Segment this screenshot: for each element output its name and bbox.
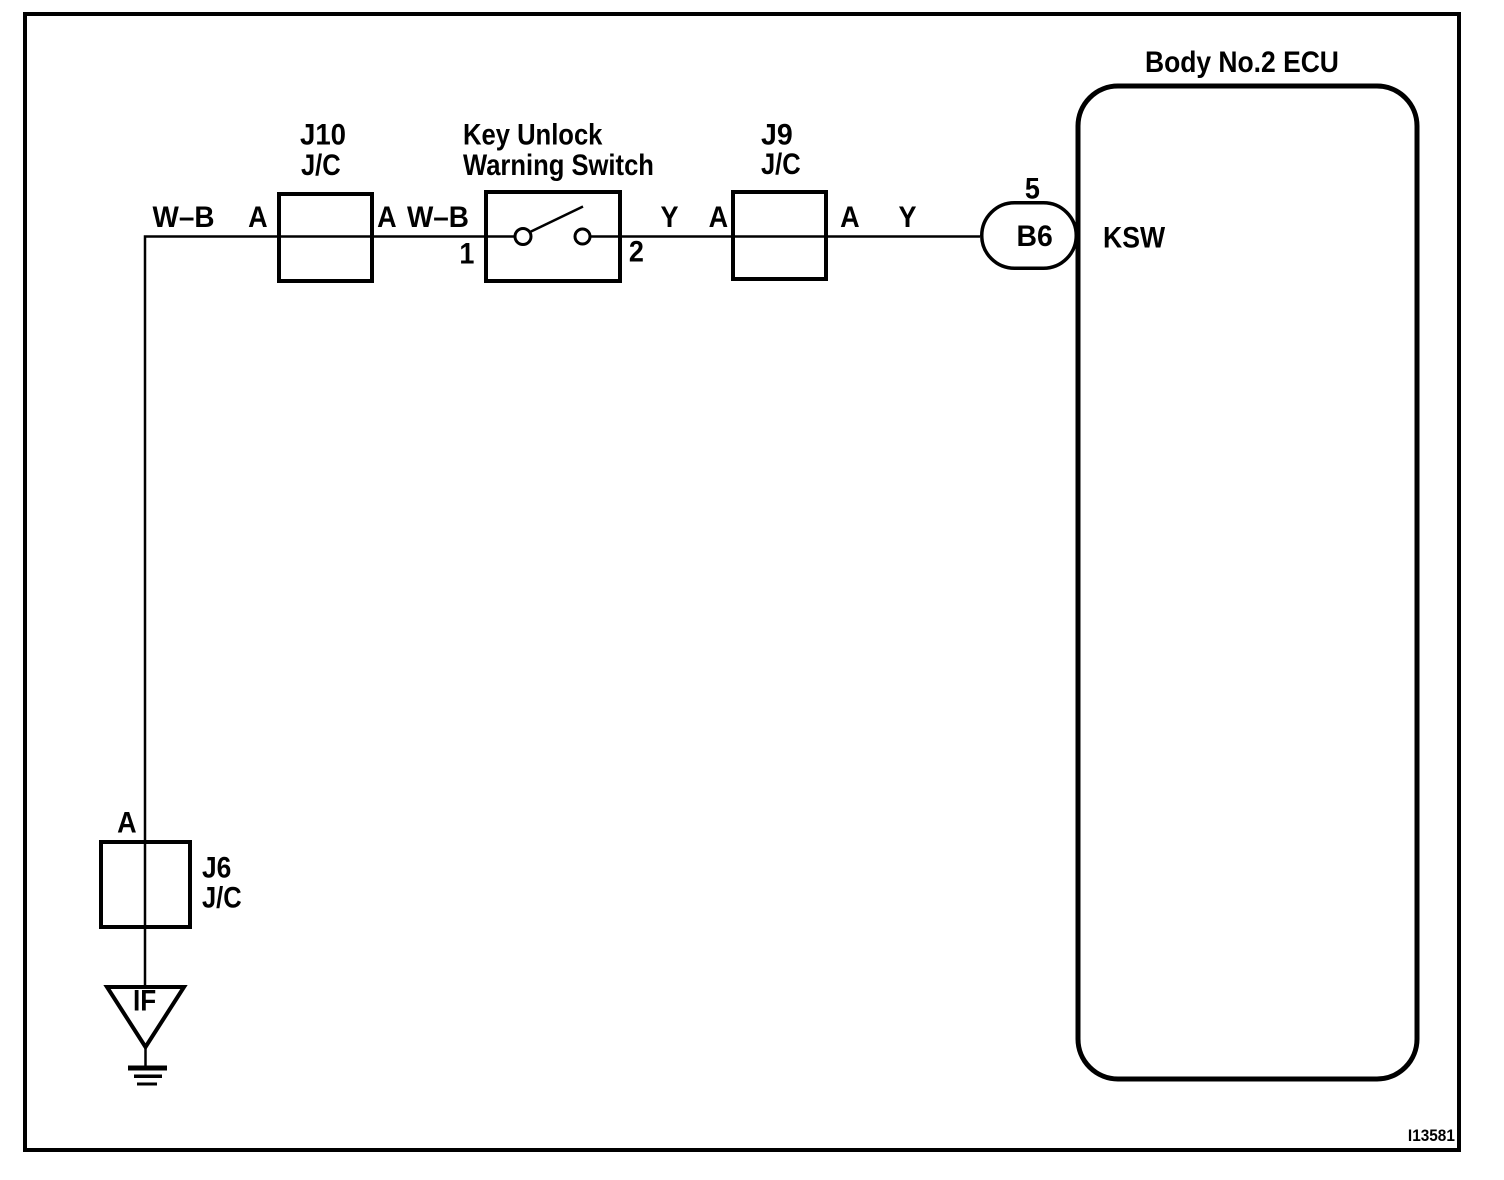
svg-text:Warning Switch: Warning Switch xyxy=(463,148,654,181)
svg-text:IF: IF xyxy=(133,984,156,1017)
svg-text:Body No.2 ECU: Body No.2 ECU xyxy=(1145,44,1339,78)
svg-text:W–B: W–B xyxy=(153,201,215,234)
svg-text:B6: B6 xyxy=(1016,220,1052,253)
svg-text:A: A xyxy=(840,201,859,235)
svg-text:A: A xyxy=(377,201,396,235)
svg-text:A: A xyxy=(248,201,267,235)
svg-text:Y: Y xyxy=(898,201,916,235)
svg-text:Y: Y xyxy=(661,201,679,235)
svg-text:I13581: I13581 xyxy=(1408,1126,1455,1145)
svg-text:W–B: W–B xyxy=(407,201,469,234)
svg-text:1: 1 xyxy=(459,237,474,271)
svg-text:A: A xyxy=(117,806,136,840)
svg-text:5: 5 xyxy=(1025,172,1040,206)
svg-text:A: A xyxy=(709,201,728,235)
svg-text:2: 2 xyxy=(629,235,644,269)
svg-text:J/C: J/C xyxy=(202,881,242,914)
svg-text:J6: J6 xyxy=(202,850,231,884)
svg-text:J/C: J/C xyxy=(761,147,801,180)
svg-text:Key Unlock: Key Unlock xyxy=(463,118,603,151)
svg-text:KSW: KSW xyxy=(1103,221,1165,255)
svg-text:J10: J10 xyxy=(300,118,346,151)
svg-text:J/C: J/C xyxy=(301,148,341,181)
